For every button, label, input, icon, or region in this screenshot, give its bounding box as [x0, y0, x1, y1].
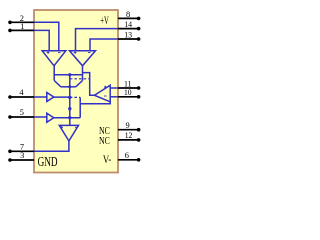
U5 plus mark — [60, 126, 63, 129]
wire core horizontal — [61, 86, 76, 88]
svg-text:GND: GND — [38, 154, 58, 169]
wire U3A output — [54, 96, 70, 98]
node core junction — [68, 85, 71, 88]
pin 9 lead (NC) — [118, 129, 139, 131]
op-amp U2B (input stage B) — [70, 51, 96, 66]
pin 6 terminal — [137, 158, 141, 162]
wire U2B output lead — [82, 66, 84, 81]
U6 plus mark — [104, 86, 107, 89]
pin 13 terminal — [137, 37, 141, 41]
wire to U6 lower corner — [80, 102, 110, 104]
node U3B junction — [68, 116, 71, 119]
svg-text:12: 12 — [125, 131, 133, 140]
pin 11 lead — [118, 87, 139, 89]
pin 4 terminal — [8, 95, 12, 99]
svg-text:V-: V- — [103, 154, 112, 166]
wire pin10 to U6 — [110, 96, 118, 98]
pin 7 terminal — [8, 150, 12, 154]
op-amp U6 (right stage) — [95, 85, 111, 102]
wire summing bus — [54, 74, 82, 76]
pin 14 lead — [118, 28, 139, 30]
wire right diagonal to core — [76, 81, 83, 87]
op-amp U5 (output stage) — [59, 125, 78, 141]
pin 9 terminal — [137, 128, 141, 132]
U2B minus mark — [88, 52, 91, 54]
pin 8 lead (+V) — [118, 17, 139, 19]
svg-text:9: 9 — [126, 121, 130, 130]
wire U6 output feedback — [83, 73, 95, 96]
buffer U3A — [47, 93, 54, 102]
svg-text:13: 13 — [124, 30, 132, 39]
svg-text:5: 5 — [20, 108, 24, 117]
U2B plus mark — [74, 51, 77, 54]
wire pin11 to U6 — [110, 87, 118, 89]
wire pin2 to U2A inverting input — [34, 22, 59, 51]
pin 14 terminal — [137, 27, 141, 31]
pin 7 lead — [10, 150, 34, 152]
pin 8 terminal — [137, 17, 141, 21]
U2A plus mark — [47, 51, 50, 54]
op-amp U2A (input stage A) — [42, 51, 66, 66]
pin 3 terminal — [8, 158, 12, 162]
pin 1 terminal — [8, 29, 12, 33]
buffer U3B — [47, 113, 54, 122]
node center junction — [68, 107, 71, 110]
wire center node vertical — [69, 75, 71, 126]
pin 2 terminal — [8, 21, 12, 25]
IC body U1 — [34, 10, 118, 173]
U2A minus mark — [58, 52, 61, 54]
pin 4 lead — [10, 96, 34, 98]
wire left diagonal to core — [54, 81, 61, 87]
pin 10 terminal — [137, 95, 141, 99]
svg-text:14: 14 — [124, 20, 132, 29]
wire pin4 to buffer U3A — [34, 96, 47, 98]
wire dashed feedback upper — [70, 78, 90, 80]
pin 1 lead — [10, 29, 34, 31]
wire dashed feedback lower — [70, 96, 80, 98]
pin 5 terminal — [8, 115, 12, 119]
wire U3B output — [54, 117, 80, 119]
U5 minus mark — [75, 126, 78, 128]
wire U5 output to pin7 — [34, 141, 69, 151]
svg-text:11: 11 — [124, 79, 132, 88]
pin 2 lead — [10, 21, 34, 23]
svg-text:4: 4 — [19, 88, 24, 97]
pin 12 lead (NC) — [118, 139, 139, 141]
svg-text:NC: NC — [99, 136, 110, 147]
wire right drop to U3B line — [79, 97, 81, 117]
wire U2A output lead — [53, 66, 55, 81]
wire pin5 to buffer U3B — [34, 116, 47, 118]
wire pin13 to U2B inverting input — [90, 39, 118, 51]
svg-text:NC: NC — [99, 126, 110, 137]
wire pin14 to U2B non-inverting input — [76, 29, 119, 51]
pin 13 lead — [118, 38, 139, 40]
node bus junction — [68, 73, 71, 76]
U6 minus mark — [104, 95, 107, 97]
pin 10 lead — [118, 96, 139, 98]
svg-text:8: 8 — [126, 10, 130, 19]
svg-text:6: 6 — [125, 151, 129, 160]
pin 6 lead (V-) — [118, 159, 139, 161]
pin 3 lead (GND) — [10, 159, 34, 161]
pin 11 terminal — [137, 86, 141, 90]
svg-text:1: 1 — [20, 22, 24, 31]
pin 5 lead — [10, 116, 34, 118]
svg-text:3: 3 — [20, 151, 24, 160]
wire pin1 to U2A non-inverting input — [34, 30, 49, 50]
node U3A junction — [68, 96, 71, 99]
svg-text:+V: +V — [100, 15, 109, 27]
pin 12 terminal — [137, 138, 141, 142]
svg-text:10: 10 — [124, 88, 132, 97]
